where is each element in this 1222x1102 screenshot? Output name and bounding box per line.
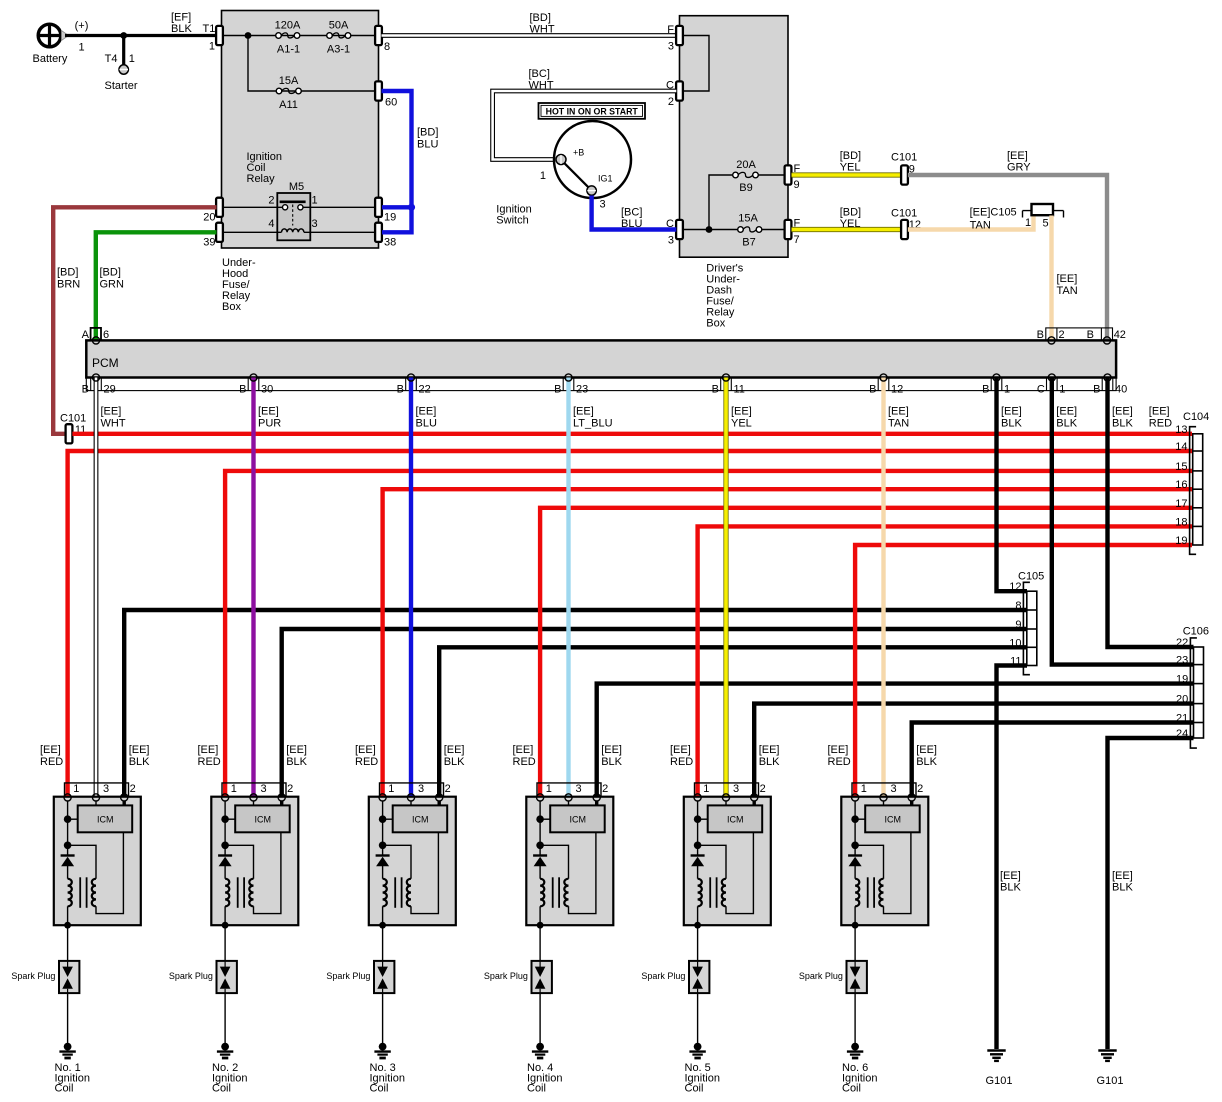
C105 pin 10 — [1009, 637, 1021, 649]
svg-text:12: 12 — [891, 384, 903, 396]
svg-text:Coil: Coil — [370, 1083, 389, 1095]
wire [BD] YEL F9 to C101-9 — [792, 150, 902, 175]
connector C3 — [666, 218, 683, 247]
svg-text:17: 17 — [1175, 498, 1187, 510]
svg-text:[BD]: [BD] — [530, 12, 551, 24]
coil 2 connector strip pins 1 3 2 — [222, 783, 293, 797]
coil 6 pin3 wire to ICM — [883, 801, 885, 805]
coil 5 box — [684, 797, 771, 926]
svg-text:[EF]: [EF] — [171, 12, 191, 24]
svg-text:20: 20 — [203, 212, 215, 224]
svg-text:ICM: ICM — [727, 814, 744, 824]
svg-text:+B: +B — [573, 148, 584, 158]
coil 2 ICM — [235, 805, 290, 832]
coil 4 wire to spark plug — [539, 925, 541, 961]
svg-text:[EE]: [EE] — [101, 406, 122, 418]
svg-text:21: 21 — [1176, 713, 1188, 725]
svg-text:B: B — [1087, 329, 1094, 341]
No. 3 Ignition Coil module — [326, 744, 465, 1095]
coil 4 box — [526, 797, 613, 926]
wire [EE] RED row 19 to No.6 coil pin 1 — [855, 545, 1192, 797]
svg-text:[EE]: [EE] — [573, 406, 594, 418]
wire [EE] BLK PCM B1 to C105-12 — [997, 378, 1028, 592]
connector pin 39 — [203, 223, 223, 249]
coil 3 bottom junction — [379, 922, 386, 929]
svg-text:TAN: TAN — [970, 220, 991, 232]
C104 pin 18 — [1175, 516, 1187, 528]
svg-text:1: 1 — [546, 783, 552, 795]
svg-text:[EE]: [EE] — [286, 744, 307, 756]
C104 pin 15 — [1175, 461, 1187, 473]
wire relay contact row pin20 to pin19 — [223, 206, 376, 208]
svg-text:1: 1 — [1059, 384, 1065, 396]
wire [BD] BLU pin60 to pin19/pin38 — [382, 91, 439, 232]
No. 5 Ignition Coil module — [641, 744, 780, 1095]
coil 3 connector strip pins 1 3 2 — [380, 783, 451, 797]
svg-text:A1-1: A1-1 — [277, 44, 300, 56]
coil 2 transformer core — [238, 877, 244, 908]
label [EE] BLK wire color — [1056, 406, 1077, 430]
svg-text:PUR: PUR — [258, 418, 281, 430]
C104 pin 19 — [1175, 535, 1187, 547]
svg-text:18: 18 — [1175, 516, 1187, 528]
coil 2 wire to spark plug — [224, 925, 226, 961]
PCM pin B23 — [554, 378, 588, 396]
wire [EE] RED row 18 to No.5 coil pin 1 — [698, 526, 1192, 797]
svg-text:39: 39 — [203, 237, 215, 249]
svg-text:2: 2 — [268, 195, 274, 207]
wire [EE] BLK No.3 coil pin2 to C105-10 — [439, 647, 1027, 797]
coil 3 pin 3 circle — [407, 794, 414, 801]
svg-text:G101: G101 — [986, 1075, 1013, 1087]
svg-text:Spark Plug: Spark Plug — [484, 971, 528, 981]
svg-text:8: 8 — [384, 41, 390, 53]
connector C101 pin 12 — [891, 208, 921, 240]
coil 2 pin 3 circle — [250, 794, 257, 801]
svg-text:C101: C101 — [60, 412, 86, 424]
HOT IN ON OR START box — [539, 103, 646, 119]
svg-text:Relay: Relay — [247, 173, 276, 185]
svg-text:Coil: Coil — [685, 1083, 704, 1095]
svg-text:Starter: Starter — [105, 80, 138, 92]
label No. 4 Ignition Coil — [527, 1062, 562, 1095]
coil 5 transformer secondary — [722, 832, 754, 913]
label [EE] TAN wire color — [888, 406, 909, 430]
svg-text:3: 3 — [891, 783, 897, 795]
connector C101 pin 9 — [891, 152, 917, 185]
C104 pin 14 — [1175, 441, 1187, 453]
coil 2 pin 2 circle — [278, 794, 285, 801]
svg-text:[EE]: [EE] — [1000, 870, 1021, 882]
coil 6 pin 2 circle — [908, 794, 915, 801]
svg-text:[EE]: [EE] — [1057, 273, 1078, 285]
PCM pin rings — [92, 337, 1111, 381]
PCM pin B40 — [1093, 378, 1127, 396]
svg-text:B7: B7 — [742, 237, 755, 249]
connector pin 38 — [375, 223, 396, 249]
svg-text:WHT: WHT — [101, 418, 126, 430]
wire [EE] GRY C101-9 to PCM B42 — [908, 150, 1107, 340]
battery — [33, 20, 89, 65]
coil 1 pin 3 circle — [92, 794, 99, 801]
coil 5 pin 1 circle — [694, 794, 701, 801]
svg-text:BLK: BLK — [601, 756, 622, 768]
wire [EE] TAN C101-12 to C105 pin 1 — [908, 214, 1034, 230]
label [EE] BLU wire color — [416, 406, 437, 430]
svg-text:ICM: ICM — [570, 814, 587, 824]
C106 pin 19 — [1176, 674, 1188, 686]
coil 6 box — [841, 797, 928, 926]
svg-text:[BC]: [BC] — [621, 207, 642, 219]
label No. 1 Ignition Coil — [55, 1062, 90, 1095]
coil 5 ICM — [708, 805, 763, 832]
coil 1 wire to ground — [67, 993, 69, 1044]
ground G101 right — [1097, 1051, 1124, 1088]
coil 6 transformer primary — [855, 879, 859, 926]
coil 3 junction to ICM — [379, 815, 393, 823]
switch lever — [564, 162, 590, 188]
connector pin 19 — [375, 198, 396, 224]
coil 1 ICM — [78, 805, 133, 832]
svg-text:6: 6 — [103, 329, 109, 341]
coil 6 pin2 wire to ICM — [910, 801, 913, 805]
PCM pin B1 — [982, 378, 1010, 396]
coil 5 junction to ICM — [694, 815, 708, 823]
coil 5 connector strip pins 1 3 2 — [695, 783, 766, 797]
wire [BD] GRN pin39 to PCM A6 — [96, 232, 217, 340]
coil 6 pin1 internal wire — [854, 801, 856, 855]
svg-text:RED: RED — [355, 756, 378, 768]
coil 5 pin1 internal wire — [697, 801, 699, 855]
svg-text:38: 38 — [384, 237, 396, 249]
label No. 6 Ignition Coil — [842, 1062, 877, 1095]
svg-text:23: 23 — [576, 384, 588, 396]
connector C2 — [666, 80, 683, 109]
fuse 50A A3-1 — [327, 20, 351, 56]
wire [EE] BLK PCM C1 to C106-23 — [1052, 378, 1194, 665]
wire [EE] BLK No.5 coil pin2 to C106-20 — [754, 704, 1193, 798]
svg-text:1: 1 — [312, 195, 318, 207]
svg-text:40: 40 — [1115, 384, 1127, 396]
svg-text:Coil: Coil — [55, 1083, 74, 1095]
svg-text:Spark Plug: Spark Plug — [326, 971, 370, 981]
coil 6 labels [EE] RED / [EE] BLK — [828, 744, 938, 768]
wire battery to T1 [EF] BLK — [65, 12, 217, 36]
wire relay coil row pin39 to pin38 — [223, 231, 376, 233]
coil 2 junction to ICM — [221, 815, 235, 823]
svg-text:A: A — [82, 329, 90, 341]
svg-text:22: 22 — [419, 384, 431, 396]
coil 4 transformer primary — [540, 879, 544, 926]
fuse 120A A1-1 — [275, 20, 301, 56]
svg-text:3: 3 — [418, 783, 424, 795]
coil 1 labels [EE] RED / [EE] BLK — [40, 744, 150, 768]
svg-text:BLK: BLK — [444, 756, 465, 768]
coil 3 wire to ground — [382, 993, 384, 1044]
svg-text:C104: C104 — [1183, 411, 1209, 423]
svg-text:[EE]: [EE] — [1112, 870, 1133, 882]
C105 pin 11 — [1010, 656, 1021, 668]
svg-text:(+): (+) — [75, 20, 89, 32]
coil 5 diode — [691, 856, 705, 879]
coil 5 transformer primary — [698, 879, 702, 926]
coil 4 junction to ICM — [536, 815, 550, 823]
svg-text:[EE]: [EE] — [40, 744, 61, 756]
svg-text:[EE]: [EE] — [1149, 406, 1170, 418]
coil 3 pin2 wire to ICM — [438, 801, 441, 805]
connector F7 — [785, 218, 801, 247]
coil 6 wire to ground — [854, 993, 856, 1044]
spark plug 6 — [799, 961, 867, 993]
coil 3 pin 2 circle — [436, 794, 443, 801]
terminal +B pin 1 — [540, 148, 584, 183]
wire [EE] YEL PCM B11 to No.5 coil pin 3 — [723, 378, 728, 798]
svg-text:[EE]: [EE] — [444, 744, 465, 756]
svg-text:9: 9 — [794, 179, 800, 191]
label [EE] BLK wire color — [1112, 406, 1133, 430]
label No. 2 Ignition Coil — [212, 1062, 247, 1095]
coil 4 junction to secondary — [536, 842, 568, 879]
coil 4 pin 3 circle — [565, 794, 572, 801]
svg-text:HOT IN ON OR START: HOT IN ON OR START — [546, 106, 639, 116]
coil 6 pin 3 circle — [880, 794, 887, 801]
svg-text:M5: M5 — [289, 181, 304, 193]
coil 5 labels [EE] RED / [EE] BLK — [670, 744, 780, 768]
coil 5 wire to ground — [697, 993, 699, 1044]
coil 1 wire to spark plug — [67, 925, 69, 961]
coil 4 diode — [533, 856, 547, 879]
svg-text:[EE]: [EE] — [828, 744, 849, 756]
coil 4 ground — [532, 1043, 548, 1058]
svg-text:WHT: WHT — [530, 24, 555, 36]
svg-text:22: 22 — [1176, 637, 1188, 649]
svg-text:1: 1 — [209, 41, 215, 53]
svg-text:B: B — [1093, 384, 1100, 396]
svg-text:RED: RED — [513, 756, 536, 768]
connector pin 60 — [375, 81, 397, 108]
C106 pin 23 — [1176, 655, 1188, 667]
svg-text:20A: 20A — [736, 159, 756, 171]
svg-text:ICM: ICM — [97, 814, 114, 824]
connector pin 20 — [203, 198, 223, 224]
wire [EE] TAN PCM B12 to No.6 coil pin 3 — [881, 378, 885, 798]
coil 3 pin3 wire to ICM — [410, 801, 412, 805]
svg-text:ICM: ICM — [885, 814, 902, 824]
svg-text:1: 1 — [703, 783, 709, 795]
svg-text:42: 42 — [1114, 329, 1126, 341]
coil 3 transformer core — [395, 877, 401, 908]
PCM bottom connector strip — [86, 378, 1116, 391]
wire [EE] TAN C105 pin 5 to PCM B2 — [1052, 216, 1078, 341]
svg-text:[EE]C105: [EE]C105 — [970, 207, 1017, 219]
Under-Hood Fuse/Relay Box — [222, 11, 379, 314]
coil 1 pin3 wire to ICM — [95, 801, 97, 805]
coil 1 pin2 wire to ICM — [122, 801, 125, 805]
coil 4 pin2 wire to ICM — [595, 801, 598, 805]
svg-text:TAN: TAN — [1057, 285, 1078, 297]
label [EE] BLK wire color — [1001, 406, 1022, 430]
svg-text:1: 1 — [73, 783, 79, 795]
svg-text:1: 1 — [861, 783, 867, 795]
coil 4 pin3 wire to ICM — [568, 801, 570, 805]
coil 6 diode — [848, 856, 862, 879]
coil 2 bottom junction — [222, 922, 229, 929]
junction inside under-hood box — [245, 32, 252, 39]
svg-text:BLK: BLK — [286, 756, 307, 768]
wire [EE] BLK No.2 coil pin2 to C105-9 — [282, 629, 1027, 797]
coil 3 diode — [376, 856, 390, 879]
spark plug 2 — [169, 961, 237, 993]
C106 pin 24 — [1176, 728, 1188, 740]
svg-text:[EE]: [EE] — [1056, 406, 1077, 418]
svg-text:BLK: BLK — [171, 23, 192, 35]
svg-text:[EE]: [EE] — [355, 744, 376, 756]
svg-text:120A: 120A — [275, 20, 301, 32]
wire junction up to fuse B9 row — [709, 175, 785, 230]
coil 3 ICM — [393, 805, 448, 832]
svg-text:1: 1 — [388, 783, 394, 795]
svg-text:[BD]: [BD] — [840, 207, 861, 219]
PCM pin B30 — [239, 378, 273, 396]
svg-text:3: 3 — [600, 199, 606, 211]
svg-text:60: 60 — [385, 97, 397, 109]
svg-text:[EE]: [EE] — [1001, 406, 1022, 418]
coil 5 junction to secondary — [694, 842, 726, 879]
svg-text:19: 19 — [1176, 674, 1188, 686]
svg-text:Spark Plug: Spark Plug — [641, 971, 685, 981]
svg-text:A11: A11 — [279, 99, 298, 111]
spark plug 5 — [641, 961, 709, 993]
coil 4 transformer core — [553, 877, 559, 908]
svg-text:ICM: ICM — [412, 814, 429, 824]
svg-text:BLK: BLK — [759, 756, 780, 768]
wire [EE] RED row 16 to No.3 coil pin 1 — [383, 489, 1192, 797]
svg-text:Spark Plug: Spark Plug — [799, 971, 843, 981]
C105 pin 12 — [1009, 581, 1021, 593]
coil 5 ground — [689, 1043, 705, 1058]
coil 1 transformer core — [80, 877, 86, 908]
wire [EE] RED bus row 13 C101-11 to C104-13 — [72, 432, 1192, 436]
svg-text:A3-1: A3-1 — [327, 44, 350, 56]
label [EE] PUR wire color — [258, 406, 281, 430]
svg-text:B: B — [397, 384, 404, 396]
coil 2 diode — [218, 856, 232, 879]
svg-text:[BC]: [BC] — [529, 68, 550, 80]
svg-text:BLK: BLK — [1112, 418, 1133, 430]
svg-text:3: 3 — [733, 783, 739, 795]
coil 4 pin1 internal wire — [539, 801, 541, 855]
svg-text:TAN: TAN — [888, 418, 909, 430]
svg-text:BLK: BLK — [916, 756, 937, 768]
connector C104 — [1183, 411, 1209, 554]
svg-text:B9: B9 — [739, 182, 752, 194]
coil 2 wire to ground — [224, 993, 226, 1044]
fuse 15A B7 — [738, 213, 762, 249]
wire T1 to fuses — [223, 35, 376, 37]
coil 2 junction to secondary — [221, 842, 253, 879]
wire [BC] WHT C2 to ignition switch +B — [493, 68, 677, 160]
coil 3 labels [EE] RED / [EE] BLK — [355, 744, 465, 768]
wire C3 row to fuse B7 — [683, 229, 785, 231]
coil 2 transformer secondary — [249, 832, 281, 913]
coil 6 connector strip pins 1 3 2 — [852, 783, 923, 797]
svg-text:BRN: BRN — [57, 279, 80, 291]
svg-text:GRY: GRY — [1007, 162, 1031, 174]
svg-text:19: 19 — [384, 212, 396, 224]
label [EE] LT_BLU wire color — [573, 406, 613, 430]
svg-text:[EE]: [EE] — [601, 744, 622, 756]
inline connector C105 pins 1/5 — [970, 204, 1064, 232]
svg-text:1: 1 — [129, 53, 135, 65]
label [EE] WHT wire color — [101, 406, 126, 430]
svg-text:7: 7 — [794, 234, 800, 246]
svg-text:1: 1 — [1004, 384, 1010, 396]
svg-text:50A: 50A — [329, 20, 349, 32]
coil 3 junction to secondary — [379, 842, 411, 879]
wire [BC] BLU IG1 to C3 — [592, 196, 677, 231]
svg-text:4: 4 — [268, 218, 274, 230]
coil 2 pin 1 circle — [222, 794, 229, 801]
No. 6 Ignition Coil module — [799, 744, 938, 1095]
coil 1 bottom junction — [64, 922, 71, 929]
label [EE] RED wire color — [1149, 406, 1172, 430]
coil 3 wire to spark plug — [382, 925, 384, 961]
svg-text:20: 20 — [1176, 694, 1188, 706]
svg-text:13: 13 — [1175, 424, 1187, 436]
svg-text:[EE]: [EE] — [416, 406, 437, 418]
coil 1 box — [54, 797, 141, 926]
svg-text:23: 23 — [1176, 655, 1188, 667]
coil 4 labels [EE] RED / [EE] BLK — [513, 744, 623, 768]
svg-text:C105: C105 — [1018, 571, 1044, 583]
svg-text:1: 1 — [1025, 217, 1031, 229]
coil 1 junction to ICM — [64, 815, 78, 823]
svg-text:15: 15 — [1175, 461, 1187, 473]
connector F3 — [667, 24, 683, 53]
svg-text:1: 1 — [540, 170, 546, 182]
wire [EE] PUR PCM B30 to No.2 coil pin 3 — [251, 378, 255, 798]
svg-text:RED: RED — [198, 756, 221, 768]
coil 4 ICM — [550, 805, 605, 832]
coil 1 transformer secondary — [92, 832, 124, 913]
svg-text:B: B — [239, 384, 246, 396]
svg-text:WHT: WHT — [529, 80, 554, 92]
svg-text:[BD]: [BD] — [57, 267, 78, 279]
PCM pin B29 — [82, 378, 116, 396]
svg-text:16: 16 — [1175, 479, 1187, 491]
svg-text:GRN: GRN — [100, 279, 125, 291]
coil 4 connector strip pins 1 3 2 — [537, 783, 608, 797]
C105 pin 8 — [1015, 600, 1021, 612]
svg-text:[EE]: [EE] — [129, 744, 150, 756]
starter T4 — [105, 36, 138, 93]
C105 pin 9 — [1015, 619, 1021, 631]
svg-text:[BD]: [BD] — [417, 127, 438, 139]
svg-text:11: 11 — [1010, 656, 1021, 668]
svg-text:Switch: Switch — [496, 215, 528, 227]
PCM pin B11 — [712, 378, 745, 396]
svg-text:T1: T1 — [203, 23, 216, 35]
coil 2 transformer primary — [225, 879, 229, 926]
terminal IG1 pin 3 — [587, 174, 613, 211]
svg-text:Coil: Coil — [527, 1083, 546, 1095]
PCM pin B12 — [869, 378, 903, 396]
coil 5 pin3 wire to ICM — [725, 801, 727, 805]
connector C106 — [1183, 626, 1209, 749]
svg-text:3: 3 — [261, 783, 267, 795]
svg-text:[EE]: [EE] — [759, 744, 780, 756]
svg-text:G101: G101 — [1097, 1075, 1124, 1087]
